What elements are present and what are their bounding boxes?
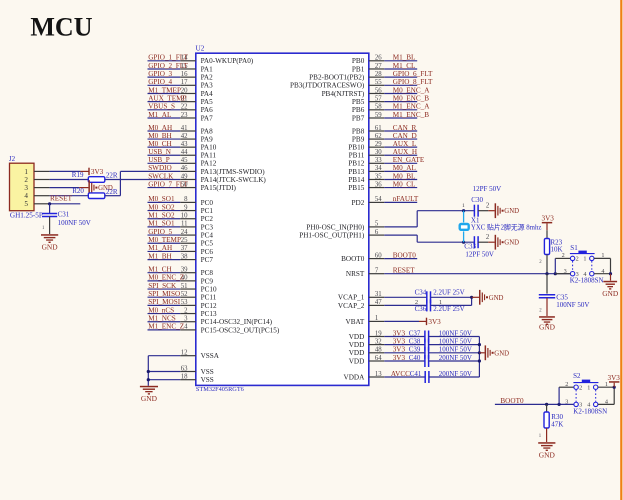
wire to R30	[546, 404, 548, 412]
svg-text:AVCC: AVCC	[391, 370, 410, 378]
net label 3V3 (VDD C40)	[393, 354, 406, 362]
pin 55 PB3(JTDOTRACESWO) / net GPIO_8_FLT	[290, 78, 433, 90]
svg-text:2: 2	[486, 203, 490, 210]
pin 25 PC5 / net M0_TEMP	[148, 236, 214, 248]
svg-text:28: 28	[375, 71, 382, 78]
svg-text:GPIO_8_FLT: GPIO_8_FLT	[393, 78, 433, 86]
svg-text:GND: GND	[141, 394, 158, 403]
pin 56 PB4(NJTRST) / net M0_ENC_A	[322, 86, 431, 98]
svg-text:3V3: 3V3	[91, 168, 104, 176]
svg-text:1: 1	[583, 256, 586, 263]
svg-text:M1_TMEP: M1_TMEP	[148, 86, 181, 94]
svg-text:51: 51	[181, 283, 188, 290]
pin 13 VDDA / net	[344, 371, 426, 382]
svg-text:20: 20	[181, 87, 188, 94]
svg-text:PA8: PA8	[201, 127, 214, 135]
wire node to C35	[546, 274, 548, 294]
svg-text:GPIO_2_FLT: GPIO_2_FLT	[148, 62, 188, 70]
svg-text:VDD: VDD	[349, 357, 365, 365]
svg-text:M0_nCS: M0_nCS	[148, 306, 174, 314]
svg-text:11: 11	[181, 221, 188, 228]
wire S1 jog	[555, 258, 570, 273]
pin 18 VSS / net n/c	[148, 374, 213, 385]
pin 14 PA0-WKUP(PA0) / net GPIO_1_FLT	[148, 54, 254, 66]
pin 7 NRST / net RESET	[346, 267, 570, 279]
designator C30	[471, 196, 483, 204]
svg-text:SPI_MOSI: SPI_MOSI	[148, 298, 181, 306]
wire VSS rail to ground	[147, 356, 150, 386]
svg-text:200NF 50V: 200NF 50V	[439, 370, 472, 378]
svg-text:49: 49	[181, 173, 188, 180]
svg-text:M0_AL: M0_AL	[393, 164, 416, 172]
svg-text:VCAP_1: VCAP_1	[338, 294, 365, 302]
svg-text:44: 44	[181, 149, 188, 156]
svg-text:PB13: PB13	[348, 168, 364, 176]
svg-text:PA13(JTMS-SWDIO): PA13(JTMS-SWDIO)	[201, 168, 266, 176]
value 100NF 50V (C39)	[439, 346, 472, 354]
wire J2.3 to GND	[50, 187, 89, 189]
pin 43 PA10 / net M0_CH	[148, 140, 217, 152]
svg-text:BOOT0: BOOT0	[341, 255, 365, 263]
pin 50 PA15(JTDI) / net GPIO_7_FLT	[148, 180, 237, 192]
svg-text:PC2: PC2	[201, 215, 214, 223]
svg-text:VBUS_S: VBUS_S	[148, 103, 175, 111]
svg-text:17: 17	[181, 79, 188, 86]
svg-text:100NF 50V: 100NF 50V	[439, 329, 472, 337]
svg-text:7: 7	[375, 268, 379, 275]
pin 15 PA1 / net GPIO_2_FLT	[148, 62, 214, 74]
value 22R (R20)	[106, 188, 118, 196]
svg-text:PB11: PB11	[349, 152, 365, 160]
svg-text:VSSA: VSSA	[201, 352, 220, 360]
svg-text:PB1: PB1	[352, 65, 365, 73]
junction RESET/R23	[545, 272, 548, 275]
svg-text:59: 59	[375, 112, 382, 119]
pin 12 VSSA / net n/c	[148, 350, 219, 361]
svg-text:GPIO_4: GPIO_4	[148, 78, 172, 86]
pin 10 PC2 / net M1_SO2	[148, 212, 214, 224]
value 2.2UF 25V (C36)	[433, 305, 465, 313]
svg-text:16: 16	[181, 71, 188, 78]
pin 61 PB8 / net CAN_R	[352, 124, 417, 136]
svg-text:M0_ENC_Z: M0_ENC_Z	[148, 274, 184, 282]
svg-text:PC5: PC5	[201, 240, 214, 248]
svg-text:PB5: PB5	[352, 98, 365, 106]
designator X1	[471, 216, 480, 224]
value 200NF 50V (C40)	[439, 354, 472, 362]
svg-text:VDD: VDD	[349, 341, 365, 349]
svg-text:M0_SO2: M0_SO2	[148, 203, 175, 211]
svg-text:R19: R19	[72, 171, 84, 179]
svg-text:M1_AL: M1_AL	[148, 111, 171, 119]
svg-text:3: 3	[576, 271, 579, 278]
wire R30 to GND	[546, 428, 548, 442]
svg-text:BOOT0: BOOT0	[393, 251, 417, 259]
wire C37 to rail	[429, 336, 480, 338]
svg-text:SPI_MISO: SPI_MISO	[148, 290, 180, 298]
designator S1	[570, 244, 578, 252]
svg-text:PA11: PA11	[201, 152, 217, 160]
net label 3V3 (VDD C37)	[393, 329, 406, 337]
svg-text:3V3: 3V3	[428, 318, 441, 326]
svg-text:12PF 50V: 12PF 50V	[465, 251, 494, 259]
svg-text:46: 46	[181, 165, 188, 172]
svg-text:NRST: NRST	[346, 270, 365, 278]
svg-text:3: 3	[565, 399, 568, 406]
svg-text:CAN_R: CAN_R	[393, 124, 417, 132]
svg-text:2: 2	[562, 252, 565, 259]
pin 5 PH0-OSC_IN(PH0) / net	[306, 221, 417, 232]
svg-text:2.2UF 25V: 2.2UF 25V	[433, 305, 465, 313]
svg-text:30: 30	[375, 149, 382, 156]
resistor R19	[88, 177, 105, 183]
svg-text:2: 2	[486, 234, 490, 241]
wire C39 to rail	[429, 352, 480, 354]
wire bottom rail	[417, 241, 474, 243]
capacitor C38	[425, 339, 429, 351]
pin 62 PB9 / net CAN_D	[352, 132, 417, 144]
junction crystal bottom	[462, 241, 465, 244]
svg-text:PC9: PC9	[201, 277, 214, 285]
pin 48 VDD / net	[349, 347, 425, 358]
designator C40	[409, 354, 421, 362]
svg-text:C37: C37	[409, 329, 421, 337]
svg-text:2: 2	[184, 307, 188, 314]
capacitor C34	[427, 291, 431, 303]
svg-text:PB2-BOOT1(PB2): PB2-BOOT1(PB2)	[309, 74, 365, 82]
pin 64 VDD / net	[349, 355, 425, 366]
svg-text:53: 53	[181, 299, 188, 306]
ground GND (S1)	[602, 281, 619, 298]
svg-text:SWDIO: SWDIO	[148, 164, 172, 172]
op IC body U2	[196, 53, 369, 385]
power 3V3 (VBAT)	[419, 318, 441, 326]
svg-text:5: 5	[375, 221, 379, 228]
svg-text:EN_GATE: EN_GATE	[393, 156, 425, 164]
svg-text:PB4(NJTRST): PB4(NJTRST)	[322, 90, 365, 98]
junction BOOT0/R30	[545, 403, 548, 406]
svg-text:25: 25	[181, 237, 188, 244]
svg-text:PD2: PD2	[352, 199, 365, 207]
svg-text:M1_SO2: M1_SO2	[148, 212, 175, 220]
power ground (VCAP)	[479, 290, 504, 305]
pin 2 mark C33	[486, 234, 490, 241]
wire S1 right side	[594, 258, 611, 273]
svg-text:M1_AH: M1_AH	[148, 244, 172, 252]
wire rail to GND	[479, 352, 484, 354]
designator C38	[409, 337, 421, 345]
svg-text:C33: C33	[464, 243, 476, 251]
pin 41 PA8 / net M0_AH	[148, 124, 214, 136]
J2 pin 4	[24, 192, 49, 200]
svg-text:2: 2	[565, 381, 568, 388]
power ground (C33)	[495, 235, 520, 250]
power ground (J2.3)	[88, 180, 113, 195]
svg-text:57: 57	[375, 96, 382, 103]
switch S1	[570, 251, 595, 276]
svg-text:C36: C36	[415, 305, 427, 313]
pin 27 PB1 / net M1_CL	[352, 62, 417, 74]
pin 54 PD2 / net nFAULT	[352, 195, 419, 207]
svg-text:PB9: PB9	[352, 136, 365, 144]
pin 52 PC11 / net SPI_MISO	[148, 290, 217, 302]
svg-text:31: 31	[375, 291, 382, 298]
pin mark R30	[539, 434, 542, 439]
svg-text:M0_AH: M0_AH	[148, 124, 172, 132]
svg-text:4: 4	[583, 271, 586, 278]
pin marks C34/C36	[415, 299, 442, 306]
svg-text:VCAP_2: VCAP_2	[338, 302, 365, 310]
svg-text:GND: GND	[539, 450, 556, 459]
svg-text:GND: GND	[602, 289, 619, 298]
value 22R (R19)	[106, 172, 118, 180]
svg-text:RESET: RESET	[50, 195, 73, 203]
svg-text:AUX_L: AUX_L	[393, 140, 417, 148]
svg-text:33: 33	[375, 157, 382, 164]
pin 24 PC4 / net GPIO_5	[148, 228, 214, 240]
value 100NF 50V (C31)	[58, 219, 91, 227]
comment YXC crystal	[471, 223, 542, 232]
svg-text:12: 12	[181, 350, 188, 357]
svg-text:100NF 50V: 100NF 50V	[439, 337, 472, 345]
svg-text:41: 41	[181, 125, 188, 132]
designator C34	[415, 289, 427, 297]
svg-text:43: 43	[181, 141, 188, 148]
wire C31 to GND	[49, 217, 51, 235]
svg-text:24: 24	[181, 229, 188, 236]
svg-text:200NF 50V: 200NF 50V	[439, 354, 472, 362]
junction VCAP	[470, 296, 473, 299]
ground GND (VSS)	[140, 386, 158, 403]
svg-text:GPIO_5: GPIO_5	[148, 228, 172, 236]
svg-text:58: 58	[375, 104, 382, 111]
S2 pin numbers	[565, 381, 608, 409]
power ground (C30)	[495, 203, 520, 218]
svg-text:61: 61	[375, 125, 382, 132]
pin 2 mark R23	[539, 260, 542, 265]
S1 pin numbers	[562, 252, 605, 278]
svg-text:AUX_H: AUX_H	[393, 148, 417, 156]
svg-text:2.2UF 25V: 2.2UF 25V	[433, 289, 465, 297]
svg-text:VDD: VDD	[349, 349, 365, 357]
wire 3V3 to R23	[546, 230, 548, 238]
svg-text:C34: C34	[415, 289, 427, 297]
svg-text:4: 4	[24, 192, 28, 200]
pin 58 PB6 / net M1_ENC_A	[352, 103, 430, 115]
pin 6 PH1-OSC_OUT(PH1) / net	[299, 229, 417, 240]
svg-text:MCU: MCU	[30, 12, 92, 41]
svg-text:2: 2	[24, 176, 28, 184]
power 3V3 (J2.1)	[80, 168, 103, 176]
svg-text:M0_SO1: M0_SO1	[148, 195, 175, 203]
junction crystal top	[462, 209, 465, 212]
wire C35 to GND	[546, 298, 548, 316]
svg-text:55: 55	[375, 79, 382, 86]
svg-text:PA4: PA4	[201, 90, 214, 98]
svg-text:54: 54	[375, 196, 382, 203]
pin 17 PA3 / net GPIO_4	[148, 78, 214, 90]
svg-text:62: 62	[375, 133, 382, 140]
svg-text:100NF 50V: 100NF 50V	[58, 219, 91, 227]
switch S2	[573, 380, 598, 407]
svg-text:PB6: PB6	[352, 106, 365, 114]
svg-text:VDDA: VDDA	[344, 373, 366, 381]
junction S2/3V3	[613, 386, 616, 389]
svg-text:PA3: PA3	[201, 82, 214, 90]
net label AVCC	[391, 370, 410, 378]
svg-text:C31: C31	[58, 210, 70, 218]
designator R23	[551, 238, 563, 246]
svg-text:27: 27	[375, 63, 382, 70]
pin 63 VSS / net n/c	[148, 365, 213, 376]
value 12PF 50V (C33)	[465, 251, 494, 259]
svg-text:26: 26	[375, 55, 382, 62]
svg-text:M0_ENC_B: M0_ENC_B	[393, 95, 430, 103]
svg-text:PC7: PC7	[201, 256, 214, 264]
net label 3V3 (VDD C38)	[393, 337, 406, 345]
junction S1 right	[609, 272, 612, 275]
svg-text:M1_CH: M1_CH	[148, 266, 172, 274]
svg-text:48: 48	[375, 347, 382, 354]
svg-text:GPIO_6_FLT: GPIO_6_FLT	[393, 70, 433, 78]
svg-text:PC8: PC8	[201, 269, 214, 277]
svg-text:39: 39	[181, 267, 188, 274]
wire PH0 jog	[416, 211, 418, 227]
svg-text:8: 8	[184, 196, 188, 203]
svg-text:3: 3	[24, 184, 28, 192]
wire S1 to GND	[610, 274, 612, 281]
pin 19 VDD / net	[349, 330, 425, 341]
svg-text:32: 32	[375, 338, 382, 345]
junction RESET/S1	[554, 272, 557, 275]
svg-text:PC10: PC10	[201, 285, 217, 293]
svg-text:J2: J2	[9, 155, 16, 163]
wire VCAP to GND	[472, 296, 479, 298]
svg-text:5: 5	[24, 200, 28, 208]
svg-text:PB7: PB7	[352, 114, 365, 122]
svg-text:M1_ENC_B: M1_ENC_B	[393, 111, 430, 119]
svg-text:PA7: PA7	[201, 114, 214, 122]
designator S2	[573, 372, 581, 380]
svg-text:M0_BH: M0_BH	[148, 132, 172, 140]
svg-text:PC11: PC11	[201, 294, 217, 302]
capacitor C31	[42, 214, 57, 217]
svg-text:19: 19	[375, 330, 382, 337]
pin 36 PB15 / net M0_CL	[348, 180, 417, 192]
svg-text:PB12: PB12	[348, 160, 364, 168]
svg-text:6: 6	[375, 229, 379, 236]
capacitor C37	[425, 331, 429, 343]
designator C31	[58, 210, 70, 218]
pin 53 PC12 / net SPI_MOSI	[148, 298, 217, 310]
svg-text:63: 63	[181, 365, 188, 372]
pin 4 PC15-OSC32_OUT(PC15) / net M1_ENC_Z	[148, 323, 280, 335]
svg-text:47K: 47K	[551, 420, 563, 428]
svg-text:nFAULT: nFAULT	[393, 195, 419, 203]
svg-text:PA12: PA12	[201, 160, 217, 168]
pin 44 PA11 / net USB_N	[148, 148, 217, 160]
svg-text:36: 36	[375, 181, 382, 188]
svg-text:PC6: PC6	[201, 248, 214, 256]
pin mark C31	[42, 226, 45, 231]
svg-text:M1_ENC_A: M1_ENC_A	[393, 103, 431, 111]
pin 33 PB12 / net EN_GATE	[348, 156, 425, 168]
wire J2.2 to R19	[50, 179, 89, 181]
svg-text:9: 9	[184, 204, 188, 211]
wire C33 to GND	[478, 241, 495, 243]
svg-text:PB10: PB10	[348, 144, 364, 152]
comment K2-1808SN (S2)	[573, 407, 607, 415]
svg-text:3V3: 3V3	[608, 374, 621, 382]
value 100NF 50V (C37)	[439, 329, 472, 337]
designator R30	[551, 413, 563, 421]
svg-text:22R: 22R	[106, 188, 118, 196]
svg-text:22R: 22R	[106, 172, 118, 180]
svg-text:GND: GND	[489, 295, 504, 302]
svg-text:GPIO_1_FLT: GPIO_1_FLT	[148, 54, 188, 62]
svg-text:10: 10	[181, 213, 188, 220]
svg-text:PA1: PA1	[201, 65, 214, 73]
svg-text:GH1.25-5P: GH1.25-5P	[10, 212, 43, 220]
wire PH1 jog	[416, 235, 418, 242]
svg-text:PA9: PA9	[201, 136, 214, 144]
pin 46 PA13(JTMS-SWDIO) / net SWDIO	[120, 164, 265, 176]
capacitor C30	[474, 205, 478, 217]
wire C41 to rail	[429, 376, 480, 378]
pin 38 PC7 / net M1_BH	[148, 252, 214, 264]
svg-text:18: 18	[181, 374, 188, 381]
svg-text:13: 13	[375, 371, 382, 378]
pin 26 PB0 / net M1_BL	[352, 54, 417, 66]
value 100NF 50V (C38)	[439, 337, 472, 345]
svg-text:PC1: PC1	[201, 207, 214, 215]
svg-text:23: 23	[181, 112, 188, 119]
svg-text:AUX_TEMP: AUX_TEMP	[148, 95, 186, 103]
svg-text:4: 4	[587, 402, 590, 409]
pin 11 PC3 / net M1_SO1	[148, 220, 214, 232]
pin 49 PA14(JTCK-SWCLK) / net SWCLK	[105, 172, 267, 184]
ground GND (R30)	[538, 442, 555, 459]
svg-text:45: 45	[181, 157, 188, 164]
svg-text:STM32F405RGT6: STM32F405RGT6	[196, 386, 244, 393]
wire R23 to RESET node	[546, 255, 548, 274]
svg-text:100NF 50V: 100NF 50V	[439, 346, 472, 354]
pin 2 mark C30	[486, 203, 490, 210]
svg-text:M1_BL: M1_BL	[393, 54, 416, 62]
wire S2 jog	[559, 387, 574, 404]
svg-text:PA0-WKUP(PA0): PA0-WKUP(PA0)	[201, 57, 254, 65]
svg-text:R20: R20	[72, 187, 84, 195]
svg-text:PC4: PC4	[201, 232, 214, 240]
svg-text:C39: C39	[409, 346, 421, 354]
svg-text:PH0-OSC_IN(PH0): PH0-OSC_IN(PH0)	[306, 223, 365, 231]
svg-text:GND: GND	[494, 350, 509, 357]
svg-text:C41: C41	[410, 370, 422, 378]
wire S1 bottom-left	[555, 273, 570, 275]
svg-text:3: 3	[579, 402, 582, 409]
power ground (VDD rail)	[485, 345, 510, 360]
value 2.2UF 25V (C34)	[433, 289, 465, 297]
designator C41	[410, 370, 422, 378]
svg-text:60: 60	[375, 252, 382, 259]
designator R19	[72, 171, 84, 179]
designator C35	[556, 293, 568, 301]
svg-text:M0_CH: M0_CH	[148, 140, 172, 148]
svg-text:M0_TEMP: M0_TEMP	[148, 236, 181, 244]
svg-text:37: 37	[181, 245, 188, 252]
svg-text:RESET: RESET	[393, 267, 416, 275]
power 3V3 (R23)	[542, 214, 555, 230]
